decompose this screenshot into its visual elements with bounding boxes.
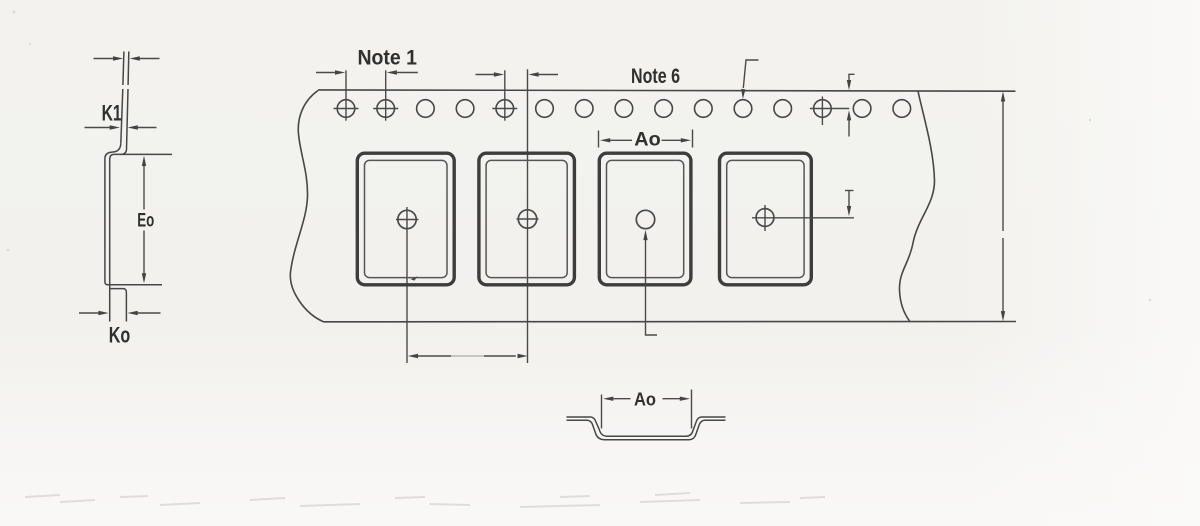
svg-text:K1: K1 — [102, 100, 122, 125]
svg-text:Note 1: Note 1 — [357, 47, 417, 70]
svg-text:Eo: Eo — [137, 209, 154, 231]
svg-text:Ao: Ao — [634, 129, 661, 151]
svg-text:Ao: Ao — [634, 389, 656, 410]
svg-text:Ko: Ko — [109, 323, 131, 348]
svg-text:Note 6: Note 6 — [631, 65, 680, 88]
